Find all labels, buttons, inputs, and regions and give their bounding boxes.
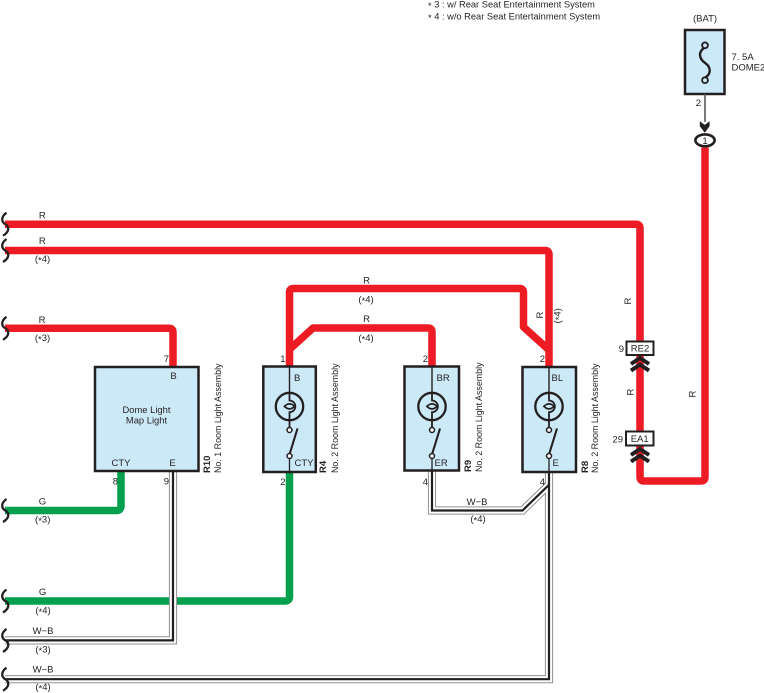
- svg-text:No. 2 Room Light Assembly: No. 2 Room Light Assembly: [474, 362, 484, 472]
- svg-text:R10: R10: [202, 456, 213, 473]
- svg-text:(*3): (*3): [35, 645, 50, 658]
- svg-text:4: 4: [540, 477, 545, 488]
- break symbol wire G *3: [2, 499, 8, 522]
- svg-text:BL: BL: [552, 373, 564, 384]
- svg-text:* 4 : w/o Rear Seat Entertainm: * 4 : w/o Rear Seat Entertainment System: [428, 12, 600, 24]
- internal wire from pin B (R9): [431, 367, 433, 393]
- wire R *3 to R10 pin 7: [5, 328, 173, 367]
- svg-text:R: R: [363, 314, 370, 325]
- svg-text:R: R: [623, 298, 634, 305]
- svg-text:RE2: RE2: [631, 344, 649, 355]
- break symbol wire R *3: [2, 317, 8, 340]
- svg-text:2: 2: [696, 98, 701, 109]
- internal wire from pin B (R8): [548, 367, 550, 393]
- wire W-B *4 bottom (white body): [5, 472, 549, 679]
- lamp bulb (R4): [276, 393, 303, 428]
- svg-text:8: 8: [113, 477, 118, 488]
- component R9 No.2 Room Light Assembly: [405, 367, 460, 471]
- svg-text:(*3): (*3): [35, 333, 50, 346]
- wire R *4 branch to R4 pin 1: [290, 289, 550, 368]
- svg-text:DOME2: DOME2: [732, 63, 764, 74]
- svg-text:R: R: [39, 315, 46, 326]
- svg-text:W−B: W−B: [33, 664, 54, 675]
- svg-text:E: E: [553, 458, 559, 469]
- svg-text:9: 9: [164, 477, 169, 488]
- svg-text:9: 9: [619, 344, 624, 355]
- wire W-B *4 short R9 to R8 (black stripe): [432, 471, 549, 511]
- svg-text:Map Light: Map Light: [126, 414, 168, 425]
- svg-text:B: B: [294, 373, 300, 384]
- svg-text:R: R: [363, 276, 370, 287]
- lamp bulb (R8): [535, 393, 562, 428]
- arrow into connector 1: [700, 121, 710, 133]
- svg-text:No. 2 Room Light Assembly: No. 2 Room Light Assembly: [590, 363, 600, 473]
- svg-text:W−B: W−B: [33, 626, 54, 637]
- svg-text:(*4): (*4): [35, 605, 50, 618]
- svg-text:CTY: CTY: [112, 458, 132, 469]
- svg-text:* 3 : w/ Rear Seat Entertainme: * 3 : w/ Rear Seat Entertainment System: [428, 0, 595, 11]
- connector EA1: [626, 432, 654, 446]
- internal wire to bottom pin (R4): [289, 459, 291, 473]
- svg-text:G: G: [39, 587, 46, 598]
- svg-text:1: 1: [280, 354, 285, 365]
- svg-text:EA1: EA1: [631, 434, 649, 445]
- wire R *4 second from top to R8 pin 2: [5, 251, 549, 368]
- svg-text:(*4): (*4): [470, 514, 485, 527]
- wire G *4 green to R4 pin 2: [5, 472, 290, 601]
- svg-text:R: R: [39, 236, 46, 247]
- break symbol wire R *4: [2, 239, 8, 262]
- fuse element symbol: [700, 42, 710, 83]
- svg-text:No. 2 Room Light Assembly: No. 2 Room Light Assembly: [330, 363, 340, 473]
- svg-text:R9: R9: [463, 460, 474, 472]
- svg-text:G: G: [39, 497, 46, 508]
- wire W-B *4 bottom (black stripe): [5, 472, 549, 679]
- wire R *4 branch to R9 pin 2: [291, 328, 433, 367]
- break symbol wire W-B *3: [2, 629, 8, 652]
- svg-text:7: 7: [164, 354, 169, 365]
- wire W-B *4 bottom (outline layer): [5, 472, 549, 679]
- break symbol wire R top: [2, 213, 8, 236]
- svg-text:(*3): (*3): [35, 514, 50, 527]
- svg-text:(*4): (*4): [358, 333, 373, 346]
- svg-text:2: 2: [423, 354, 428, 365]
- wire W-B *4 short R9 to R8 (outline layer): [432, 471, 549, 511]
- wire G *3 green to R10 pin 8: [5, 472, 121, 511]
- svg-text:W−B: W−B: [467, 497, 488, 508]
- svg-text:R: R: [39, 210, 46, 221]
- svg-text:2: 2: [540, 354, 545, 365]
- svg-text:ER: ER: [435, 458, 448, 469]
- lamp bulb (R9): [418, 393, 445, 428]
- svg-text:4: 4: [423, 477, 428, 488]
- svg-text:(*4): (*4): [553, 308, 566, 323]
- wire fuse pin 2 to connector: [704, 94, 706, 122]
- svg-text:1: 1: [702, 136, 707, 147]
- internal wire from pin B (R4): [289, 367, 291, 393]
- connector RE2: [627, 342, 654, 356]
- svg-text:7. 5A: 7. 5A: [732, 52, 755, 63]
- wire W-B *3 (white body): [5, 472, 173, 641]
- break symbol wire G *4: [2, 590, 8, 613]
- connector 1: [695, 134, 714, 147]
- svg-text:2: 2: [280, 477, 285, 488]
- fuse DOME2 7.5A: [685, 30, 725, 94]
- internal wire to bottom pin (R8): [548, 459, 550, 473]
- svg-text:(*4): (*4): [358, 295, 373, 308]
- svg-text:B: B: [170, 371, 176, 382]
- svg-text:(*4): (*4): [35, 682, 50, 693]
- svg-text:(BAT): (BAT): [693, 14, 717, 25]
- internal wire to bottom pin (R9): [431, 459, 433, 471]
- component R10 No.1 Room Light Assembly (Dome Light Map Light): [95, 367, 199, 471]
- switch (R9): [430, 428, 441, 459]
- svg-text:R: R: [688, 391, 699, 398]
- svg-text:29: 29: [612, 435, 623, 446]
- svg-text:E: E: [169, 458, 175, 469]
- svg-text:BR: BR: [437, 373, 450, 384]
- svg-text:CTY: CTY: [295, 458, 315, 469]
- svg-text:R4: R4: [318, 460, 329, 473]
- component R8 No.2 Room Light Assembly: [523, 367, 577, 472]
- wire W-B *3 (black stripe): [5, 472, 173, 641]
- wire W-B *4 short R9 to R8 (white body): [432, 471, 549, 511]
- svg-text:No. 1 Room Light Assembly: No. 1 Room Light Assembly: [213, 363, 223, 473]
- svg-text:(*4): (*4): [35, 254, 50, 267]
- chevron arrow below RE2: [631, 358, 649, 371]
- svg-text:R: R: [535, 312, 546, 319]
- wire R main battery feed: fuse down, across, up through EA1/RE2, left to edge: [5, 148, 705, 482]
- chevron arrow below EA1: [631, 449, 649, 462]
- switch (R4): [287, 428, 298, 459]
- break symbol wire W-B *4: [2, 668, 8, 691]
- svg-text:R: R: [626, 389, 637, 396]
- component R4 No.2 Room Light Assembly: [263, 367, 316, 473]
- wire W-B *3 (outline layer): [5, 472, 173, 641]
- switch (R8): [547, 428, 558, 459]
